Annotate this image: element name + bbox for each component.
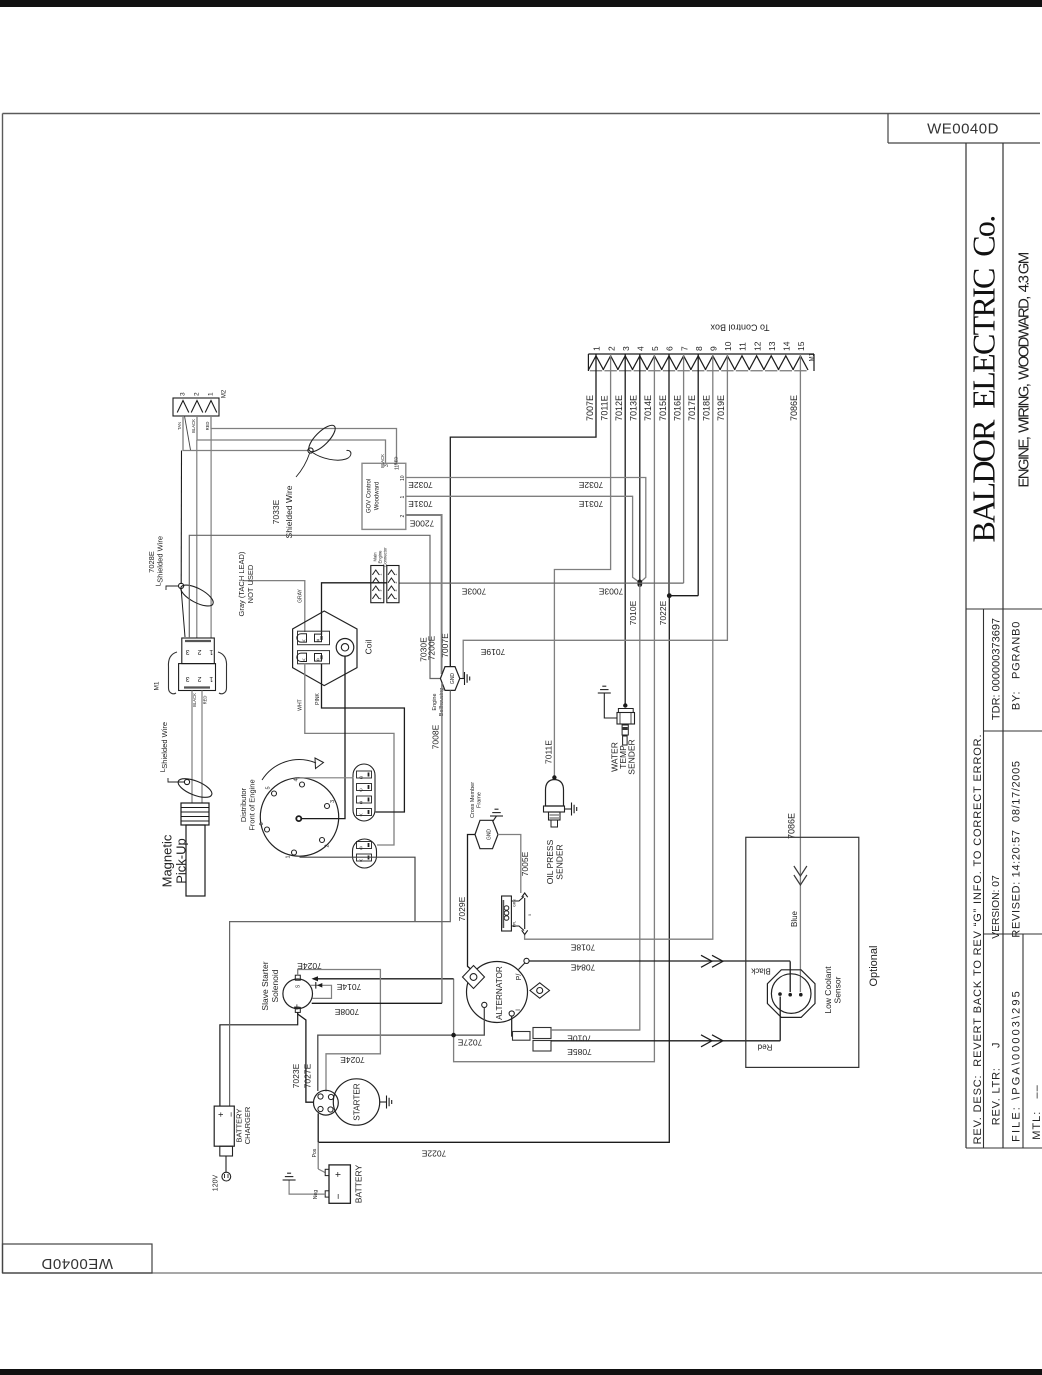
svg-text:7019E: 7019E bbox=[716, 395, 726, 421]
low coolant sensor octagon bbox=[767, 970, 815, 1018]
wire distributor bottom rim through A slot to engine boundary bbox=[300, 857, 416, 921]
starter bbox=[333, 1079, 379, 1125]
svg-text:Neg: Neg bbox=[313, 1190, 319, 1199]
svg-text:7031E: 7031E bbox=[408, 499, 433, 509]
svg-text:14: 14 bbox=[782, 341, 792, 351]
svg-text:13: 13 bbox=[767, 341, 777, 351]
wire 7011E bbox=[554, 354, 610, 777]
svg-text:GRN: GRN bbox=[512, 899, 516, 907]
rotation arrow bbox=[262, 760, 316, 780]
svg-text:FILE: \PGA\00003\295: FILE: \PGA\00003\295 bbox=[1010, 989, 1022, 1142]
svg-text:7003E: 7003E bbox=[598, 586, 623, 596]
HT lead to distributor bbox=[302, 656, 345, 819]
svg-text:Engine: Engine bbox=[432, 693, 438, 710]
title box WE0040D top-right bbox=[887, 114, 889, 144]
junction 7015E/7017E/7022E bbox=[667, 593, 672, 598]
svg-text:7022E: 7022E bbox=[421, 1148, 446, 1158]
wire 7005E bbox=[498, 835, 521, 894]
svg-text:3: 3 bbox=[378, 589, 382, 591]
svg-text:BLACK: BLACK bbox=[192, 693, 197, 707]
svg-text:Frame: Frame bbox=[476, 792, 482, 808]
svg-text:BY: PGRANB0: BY: PGRANB0 bbox=[1010, 621, 1022, 710]
svg-text:Low Coolant: Low Coolant bbox=[823, 966, 833, 1014]
wire 7003E bbox=[399, 582, 684, 584]
wires M1 to pickup bbox=[191, 691, 193, 804]
svg-text:6: 6 bbox=[665, 346, 675, 351]
svg-text:5: 5 bbox=[265, 786, 271, 789]
svg-text:7012E: 7012E bbox=[614, 395, 624, 421]
engine boundary left: M1 to top edge bbox=[189, 535, 440, 678]
svg-text:9: 9 bbox=[709, 346, 719, 351]
shield ellipse 7028E bbox=[178, 581, 216, 610]
svg-text:M1: M1 bbox=[154, 681, 161, 690]
svg-text:6: 6 bbox=[259, 822, 265, 825]
wire 7010E lower bbox=[551, 1029, 640, 1031]
svg-text:10: 10 bbox=[400, 475, 406, 481]
svg-text:1 2 3: 1 2 3 bbox=[183, 648, 214, 655]
wire 7019E bbox=[463, 354, 727, 678]
svg-text:Pos: Pos bbox=[312, 1148, 318, 1157]
7022E to starter / battery pos bbox=[317, 1114, 319, 1143]
drawing frame border bbox=[3, 113, 1041, 115]
svg-text:REVISED: 14:20:57 08/17/2005: REVISED: 14:20:57 08/17/2005 bbox=[1010, 760, 1022, 937]
wire 7032E bbox=[406, 478, 646, 583]
svg-text:7015E: 7015E bbox=[658, 395, 668, 421]
svg-text:To Control Box: To Control Box bbox=[710, 323, 770, 333]
wire distributor top rim to D slot bbox=[300, 777, 354, 779]
distributor circle bbox=[260, 778, 338, 856]
svg-text:1: 1 bbox=[378, 573, 382, 575]
svg-text:12: 12 bbox=[752, 341, 762, 351]
svg-text:P/: P/ bbox=[516, 974, 523, 981]
top black bar bbox=[0, 0, 1042, 7]
svg-text:7029E: 7029E bbox=[457, 896, 467, 921]
coil hexagon bbox=[293, 611, 357, 686]
battery charger bbox=[214, 1106, 234, 1146]
svg-text:A: A bbox=[359, 812, 362, 817]
distributor towers 1-6 bbox=[300, 782, 305, 787]
svg-text:7018E: 7018E bbox=[702, 395, 712, 421]
svg-text:2: 2 bbox=[194, 392, 201, 396]
svg-text:5: 5 bbox=[650, 346, 660, 351]
svg-text:7085E: 7085E bbox=[567, 1047, 592, 1057]
svg-text:RED: RED bbox=[394, 457, 399, 466]
svg-text:7007E: 7007E bbox=[585, 395, 595, 421]
svg-text:BALDOR ELECTRIC Co.: BALDOR ELECTRIC Co. bbox=[965, 216, 1001, 542]
svg-text:REV. LTR: J: REV. LTR: J bbox=[990, 1042, 1002, 1126]
wire 7012E bbox=[624, 354, 626, 704]
svg-text:3: 3 bbox=[384, 464, 390, 467]
connector M1 bbox=[182, 638, 215, 664]
alternator bbox=[467, 962, 528, 1023]
black wire (7084E) inside box bbox=[789, 961, 791, 992]
svg-text:Magnetic: Magnetic bbox=[159, 834, 174, 887]
wire 7014E bbox=[454, 354, 655, 1062]
svg-text:10: 10 bbox=[723, 341, 733, 351]
slave starter solenoid bbox=[283, 979, 313, 1009]
svg-text:7018E: 7018E bbox=[570, 942, 595, 952]
svg-text:7007E: 7007E bbox=[440, 633, 450, 658]
wire 7023E bbox=[298, 1012, 314, 1102]
svg-text:7016E: 7016E bbox=[672, 395, 682, 421]
svg-text:2: 2 bbox=[400, 515, 406, 518]
svg-text:7031E: 7031E bbox=[578, 499, 603, 509]
svg-text:MTL: ––: MTL: –– bbox=[1031, 1084, 1042, 1139]
svg-text:7011E: 7011E bbox=[544, 740, 554, 764]
chevrons into optional box bbox=[701, 955, 712, 967]
svg-text:7013E: 7013E bbox=[629, 395, 639, 421]
svg-text:Sensor: Sensor bbox=[833, 976, 843, 1003]
svg-text:Woodward: Woodward bbox=[375, 482, 381, 511]
M2 pin2 BLACK wire to GOV pin 3 bbox=[197, 416, 386, 463]
svg-text:PINK: PINK bbox=[315, 693, 321, 705]
svg-text:7023E: 7023E bbox=[291, 1063, 301, 1088]
distributor connector oval A-B bbox=[353, 839, 377, 868]
svg-text:GND: GND bbox=[486, 829, 492, 841]
wire 7029E bbox=[468, 835, 477, 975]
comb pin chevrons and numbers 1-15 bbox=[588, 356, 603, 370]
svg-text:+: + bbox=[334, 1171, 345, 1177]
oil sender ground bbox=[565, 808, 572, 810]
shield drain dot 7028E bbox=[179, 583, 184, 588]
wire 7200E bbox=[406, 515, 442, 674]
svg-text:WE0040D: WE0040D bbox=[41, 1255, 113, 1272]
svg-text:1: 1 bbox=[400, 496, 406, 499]
wire 7084E bbox=[529, 960, 790, 962]
svg-text:+: + bbox=[292, 1004, 304, 1010]
crossing diagonal at M2 bbox=[185, 416, 191, 450]
ground hex GND engine bellhousing bbox=[440, 667, 459, 691]
water temp sender bbox=[623, 703, 627, 707]
svg-text:7032E: 7032E bbox=[578, 480, 603, 490]
svg-text:1: 1 bbox=[592, 346, 602, 351]
svg-text:1: 1 bbox=[394, 573, 398, 575]
svg-text:Slave Starter: Slave Starter bbox=[260, 961, 270, 1010]
M2 pin3 TAN wire to shield 7033E bbox=[183, 416, 308, 451]
svg-text:7024E: 7024E bbox=[340, 1055, 365, 1065]
svg-text:Front of Engine: Front of Engine bbox=[247, 779, 256, 830]
svg-text:3: 3 bbox=[621, 346, 631, 351]
red wire (7085E) inside box bbox=[779, 997, 781, 1041]
wire 7010E bbox=[551, 585, 640, 1031]
svg-text:M1: M1 bbox=[810, 352, 816, 361]
7014E diode loop bbox=[310, 985, 331, 998]
svg-text:Solenoid: Solenoid bbox=[270, 969, 280, 1002]
alternator 7084E terminal bbox=[524, 958, 529, 963]
wire 7008E below hex bbox=[441, 683, 443, 1003]
battery neg to ground bbox=[289, 1180, 325, 1194]
svg-text:7033E: 7033E bbox=[271, 499, 281, 524]
svg-text:RED: RED bbox=[203, 696, 208, 705]
wire 7016E bbox=[683, 354, 685, 583]
alternator flange lower-right bbox=[530, 983, 550, 998]
revision table horizontals bbox=[966, 608, 1042, 610]
svg-text:−: − bbox=[334, 1193, 345, 1199]
optional box bbox=[746, 837, 859, 1067]
svg-text:BLACK: BLACK bbox=[191, 419, 196, 433]
svg-text:STARTER: STARTER bbox=[353, 1083, 362, 1121]
water sender ground bbox=[604, 693, 617, 718]
svg-text:2: 2 bbox=[378, 581, 382, 583]
svg-text:8: 8 bbox=[694, 346, 704, 351]
svg-text:7032E: 7032E bbox=[408, 480, 433, 490]
alternator I terminal bbox=[509, 1011, 514, 1016]
svg-text:Shielded Wire: Shielded Wire bbox=[284, 485, 294, 538]
svg-text:7011E: 7011E bbox=[599, 395, 609, 420]
wire 7007E bbox=[450, 354, 596, 667]
svg-text:Coil: Coil bbox=[364, 640, 374, 655]
svg-text:└Shielded Wire: └Shielded Wire bbox=[160, 722, 169, 774]
svg-text:TDR: 000000373697: TDR: 000000373697 bbox=[990, 618, 1002, 720]
wire 7008E horizontal bbox=[312, 1002, 442, 1004]
svg-text:7008E: 7008E bbox=[431, 724, 441, 749]
alternator terminal bbox=[482, 1002, 487, 1007]
svg-text:3: 3 bbox=[330, 800, 336, 803]
svg-text:VERSION: 07: VERSION: 07 bbox=[991, 875, 1002, 939]
svg-text:120V: 120V bbox=[212, 1175, 219, 1192]
7086E chevron arrows bbox=[794, 866, 807, 876]
wire 7027E bbox=[318, 1008, 485, 1092]
svg-text:4: 4 bbox=[636, 346, 646, 351]
svg-text:└Shielded Wire: └Shielded Wire bbox=[155, 536, 164, 588]
svg-text:1 2 3: 1 2 3 bbox=[183, 675, 214, 682]
tie 7015E-7017E bbox=[669, 595, 698, 597]
svg-text:Black: Black bbox=[750, 966, 771, 975]
shield dot 7033E bbox=[308, 448, 313, 453]
svg-text:7086E: 7086E bbox=[789, 395, 799, 421]
shield curl hook 7033E bbox=[313, 450, 351, 460]
svg-text:GOV Control: GOV Control bbox=[367, 479, 373, 513]
svg-text:RED: RED bbox=[205, 422, 210, 431]
svg-text:4: 4 bbox=[378, 597, 382, 599]
M1 latch wings bbox=[168, 652, 177, 694]
svg-text:SENDER: SENDER bbox=[627, 739, 637, 774]
svg-text:7027E: 7027E bbox=[303, 1063, 313, 1088]
shield drain diagonal to M1 bbox=[181, 589, 185, 638]
svg-text:BATTERY: BATTERY bbox=[354, 1164, 364, 1203]
wire 7015E bbox=[668, 354, 670, 596]
svg-text:Optional: Optional bbox=[868, 946, 880, 987]
svg-text:7019E: 7019E bbox=[480, 647, 505, 657]
shield ellipse (pickup) bbox=[176, 775, 215, 801]
junction splice 7013E/7031E/7032E/7010E bbox=[637, 580, 642, 585]
svg-text:3: 3 bbox=[180, 392, 187, 396]
svg-text:4: 4 bbox=[394, 597, 398, 599]
starter ground bbox=[380, 1101, 386, 1103]
svg-text:CHARGER: CHARGER bbox=[243, 1106, 252, 1144]
svg-text:11: 11 bbox=[738, 342, 748, 351]
svg-text:7027E: 7027E bbox=[457, 1037, 482, 1047]
svg-text:7086E: 7086E bbox=[786, 813, 796, 839]
svg-text:SENDER: SENDER bbox=[555, 844, 565, 879]
mirrored WE0040D box bottom-left bbox=[3, 1244, 153, 1273]
svg-text:3: 3 bbox=[394, 589, 398, 591]
svg-text:B: B bbox=[316, 638, 319, 643]
svg-text:2: 2 bbox=[324, 844, 330, 847]
svg-text:OIL PRESS: OIL PRESS bbox=[545, 839, 555, 884]
M2-M1 wires bbox=[196, 440, 198, 638]
svg-text:WE0040D: WE0040D bbox=[927, 121, 999, 138]
svg-text:7008E: 7008E bbox=[334, 1007, 359, 1017]
charger positive wire bbox=[220, 1012, 298, 1106]
WHT wire bbox=[305, 664, 394, 845]
connector W1 To Control Box comb bbox=[588, 353, 814, 355]
svg-text:4: 4 bbox=[293, 778, 299, 781]
shield drain continuation down to 7028E shield bbox=[180, 451, 182, 585]
svg-text:B: B bbox=[359, 800, 362, 805]
svg-text:A: A bbox=[302, 658, 305, 663]
svg-text:Red: Red bbox=[758, 1042, 773, 1051]
svg-text:7003E: 7003E bbox=[461, 586, 486, 596]
svg-text:1: 1 bbox=[285, 855, 291, 858]
svg-text:7010E: 7010E bbox=[628, 600, 638, 625]
svg-text:B: B bbox=[359, 845, 362, 850]
svg-text:I: I bbox=[515, 1009, 522, 1011]
svg-text:2: 2 bbox=[394, 581, 398, 583]
svg-text:GRAY: GRAY bbox=[298, 588, 304, 602]
battery bbox=[329, 1165, 350, 1203]
svg-text:7005E: 7005E bbox=[520, 851, 530, 876]
svg-text:2: 2 bbox=[606, 346, 616, 351]
wire 7085E bbox=[551, 1040, 780, 1042]
oil press sender bbox=[552, 775, 556, 779]
svg-text:11: 11 bbox=[394, 465, 400, 470]
main engine connector boxes bbox=[371, 566, 384, 603]
junction 7027E/solenoid-S wire bbox=[451, 1033, 456, 1038]
alternator plug connector bbox=[513, 1032, 531, 1041]
svg-text:A: A bbox=[302, 638, 305, 643]
svg-text:TAN: TAN bbox=[177, 422, 182, 430]
svg-text:B: B bbox=[316, 658, 319, 663]
wire 7018E bbox=[525, 354, 713, 939]
svg-text:NOT USED: NOT USED bbox=[246, 564, 255, 603]
svg-text:ENGINE, WIRING, WOODWARD, 4: ENGINE, WIRING, WOODWARD, 4.3 GM bbox=[1015, 252, 1032, 487]
svg-text:7010E: 7010E bbox=[567, 1033, 592, 1043]
svg-text:7: 7 bbox=[679, 346, 689, 351]
svg-text:7014E: 7014E bbox=[643, 395, 653, 421]
svg-text:15: 15 bbox=[796, 341, 806, 351]
title block vertical dividers bbox=[965, 143, 967, 1148]
distributor connector oval A-D bbox=[353, 764, 375, 821]
I terminal wire to plug bbox=[512, 1016, 513, 1036]
svg-text:7200E: 7200E bbox=[409, 518, 434, 528]
svg-text:7017E: 7017E bbox=[687, 395, 697, 421]
svg-text:+: + bbox=[216, 1112, 226, 1117]
shield ellipse 7033E bbox=[305, 422, 339, 456]
charger ground to engine boundary bbox=[230, 690, 451, 1106]
coil B wire to main engine connector bbox=[322, 583, 388, 635]
svg-text:Blue: Blue bbox=[790, 910, 799, 927]
magnetic pickup body bbox=[181, 803, 209, 825]
wire 7013E bbox=[639, 354, 641, 581]
wire 7022E bbox=[318, 596, 669, 1143]
relay stubs and arrows bbox=[511, 897, 524, 902]
svg-text:7014E: 7014E bbox=[336, 982, 361, 992]
svg-text:7084E: 7084E bbox=[570, 962, 595, 972]
svg-text:GND: GND bbox=[450, 673, 456, 685]
wire 7086E bbox=[799, 354, 801, 992]
wire 7031E bbox=[406, 496, 639, 582]
svg-text:Gray (TACH LEAD): Gray (TACH LEAD) bbox=[237, 551, 246, 616]
shield dot pickup bbox=[184, 779, 189, 784]
svg-text:WHT: WHT bbox=[298, 699, 304, 710]
GOV Control Woodward box U-GOV bbox=[362, 463, 406, 529]
svg-text:Connector: Connector bbox=[383, 547, 388, 567]
relay box bbox=[502, 896, 512, 931]
svg-text:7200E: 7200E bbox=[427, 635, 437, 660]
120V plug bbox=[222, 1172, 231, 1181]
coil HT tower bbox=[336, 639, 354, 657]
alternator flange upper-left bbox=[463, 966, 485, 989]
svg-text:ALTERNATOR: ALTERNATOR bbox=[495, 966, 504, 1020]
ground hex GND cross member frame bbox=[475, 820, 498, 848]
svg-text:Pick-Up: Pick-Up bbox=[173, 838, 188, 884]
M2 pin1 RED wire to GOV pin 11 bbox=[211, 416, 397, 463]
wire to solenoid S with arrowhead bbox=[313, 978, 454, 980]
Gray TACH lead (not used) bbox=[243, 581, 305, 632]
PINK wire bbox=[322, 664, 405, 812]
connector M2 bbox=[173, 398, 219, 416]
svg-text:Cross Member: Cross Member bbox=[470, 782, 476, 818]
svg-text:7022E: 7022E bbox=[658, 600, 668, 625]
svg-text:1: 1 bbox=[208, 392, 215, 396]
bottom black bar bbox=[0, 1369, 1042, 1375]
svg-text:A: A bbox=[359, 858, 362, 863]
svg-text:7024E: 7024E bbox=[297, 961, 322, 971]
wire 7017E bbox=[697, 354, 699, 596]
svg-text:M2: M2 bbox=[222, 389, 228, 398]
coil terminal slots bbox=[298, 631, 330, 645]
wire 7024E bbox=[298, 970, 381, 1092]
svg-text:REV. DESC: REVERT BACK TO REV: REV. DESC: REVERT BACK TO REV “G” INFO. … bbox=[972, 734, 984, 1145]
